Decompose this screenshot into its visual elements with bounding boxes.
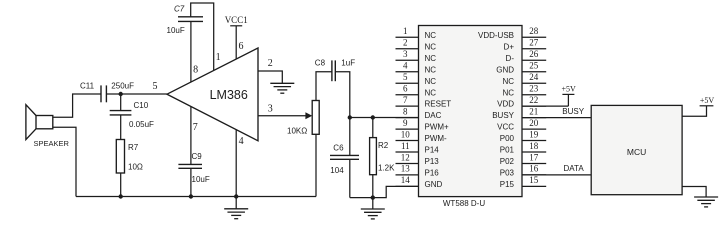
node junction C10 tap bbox=[119, 92, 123, 96]
IC U2 name label bbox=[443, 199, 485, 208]
ground main bbox=[224, 197, 248, 219]
svg-text:17: 17 bbox=[529, 152, 539, 162]
pin 20 label VCC bbox=[497, 123, 514, 132]
pin 6 label bbox=[239, 41, 244, 52]
op-amp U1 LM386 bbox=[167, 48, 258, 141]
svg-text:DAC: DAC bbox=[425, 111, 442, 120]
svg-text:NC: NC bbox=[425, 77, 437, 86]
node C6 tap bbox=[348, 115, 352, 119]
svg-text:3: 3 bbox=[403, 49, 408, 59]
arrow into potentiometer bbox=[305, 112, 312, 119]
pin 7 wire bbox=[190, 106, 192, 164]
junction pin4-rail bbox=[234, 194, 238, 198]
svg-text:18: 18 bbox=[529, 141, 539, 151]
svg-text:BUSY: BUSY bbox=[562, 107, 584, 116]
svg-text:VDD-USB: VDD-USB bbox=[478, 31, 514, 40]
pin 26 stub bbox=[522, 49, 546, 60]
power +5V at pin 22 bbox=[522, 84, 576, 106]
DATA label bbox=[564, 164, 585, 173]
ground at MCU bbox=[682, 187, 718, 207]
wire speaker bottom to ground rail bbox=[53, 127, 76, 196]
resistor R2 bbox=[370, 118, 396, 198]
svg-text:23: 23 bbox=[529, 84, 539, 94]
svg-text:10Ω: 10Ω bbox=[128, 163, 143, 172]
MCU block bbox=[591, 105, 682, 194]
node R2 tap bbox=[371, 115, 375, 119]
svg-text:C7: C7 bbox=[174, 5, 185, 14]
svg-text:2: 2 bbox=[268, 58, 273, 69]
svg-text:7: 7 bbox=[403, 95, 408, 105]
svg-text:26: 26 bbox=[529, 49, 539, 59]
svg-text:R2: R2 bbox=[378, 141, 389, 150]
svg-text:10KΩ: 10KΩ bbox=[287, 127, 307, 136]
power VCC1 bbox=[225, 15, 248, 59]
pin 16 label P03 bbox=[500, 169, 515, 178]
pin 9 label PWM+ bbox=[425, 123, 450, 132]
pin 1 stub bbox=[396, 26, 419, 37]
svg-text:RESET: RESET bbox=[425, 100, 452, 109]
wire pot top riser bbox=[316, 72, 332, 101]
svg-text:10uF: 10uF bbox=[167, 26, 185, 35]
svg-text:15: 15 bbox=[529, 175, 539, 185]
wire C7 bottom to pin 8 bbox=[190, 21, 192, 82]
pin 8 stub bbox=[396, 106, 419, 117]
pin 18 label P01 bbox=[500, 146, 515, 155]
svg-text:NC: NC bbox=[425, 31, 437, 40]
svg-text:24: 24 bbox=[529, 72, 539, 82]
pin 19 stub bbox=[522, 129, 546, 140]
svg-text:9: 9 bbox=[403, 118, 408, 128]
pin 12 stub bbox=[396, 152, 419, 163]
pin 23 stub bbox=[522, 84, 546, 95]
svg-text:1: 1 bbox=[216, 52, 221, 63]
pin 3 label bbox=[268, 104, 273, 115]
pin 7 stub bbox=[396, 95, 419, 106]
svg-text:+5V: +5V bbox=[700, 96, 715, 105]
pin 5 label NC bbox=[425, 77, 437, 86]
svg-text:250uF: 250uF bbox=[111, 82, 134, 91]
pin 4 wire bbox=[235, 130, 237, 197]
svg-text:GND: GND bbox=[496, 65, 514, 74]
pin 4 stub bbox=[396, 61, 419, 72]
pin 27 stub bbox=[522, 38, 546, 49]
pin 28 label VDD-USB bbox=[478, 31, 514, 40]
pin 28 stub bbox=[522, 26, 546, 37]
pin 2 label NC bbox=[425, 42, 437, 51]
pin 22 label VDD bbox=[497, 100, 514, 109]
svg-text:20: 20 bbox=[529, 118, 539, 128]
svg-text:2: 2 bbox=[403, 38, 408, 48]
svg-text:7: 7 bbox=[193, 122, 198, 133]
pin 3 output wire bbox=[258, 115, 306, 117]
svg-text:P02: P02 bbox=[500, 157, 515, 166]
pin 6 stub bbox=[396, 84, 419, 95]
IC U2 WT588D-U body bbox=[419, 26, 523, 197]
pin 12 label P13 bbox=[425, 157, 440, 166]
pin 23 label NC bbox=[502, 88, 514, 97]
svg-text:VCC1: VCC1 bbox=[225, 15, 248, 25]
pin 21 stub bbox=[522, 106, 546, 117]
svg-text:BUSY: BUSY bbox=[492, 111, 514, 120]
svg-text:NC: NC bbox=[425, 88, 437, 97]
svg-text:WT588 D-U: WT588 D-U bbox=[443, 199, 485, 208]
svg-text:10: 10 bbox=[401, 129, 411, 139]
svg-text:5: 5 bbox=[403, 72, 408, 82]
wire DAC to pin 8 of U2 bbox=[350, 117, 419, 119]
svg-text:PWM+: PWM+ bbox=[425, 123, 450, 132]
ground pin2 bbox=[270, 83, 294, 93]
pin 3 stub bbox=[396, 49, 419, 60]
capacitor C7 bbox=[167, 5, 204, 36]
svg-text:0.05uF: 0.05uF bbox=[129, 120, 154, 129]
pin 6 label NC bbox=[425, 88, 437, 97]
wire DATA bbox=[522, 174, 591, 176]
ground rail wire bbox=[76, 196, 316, 198]
pin 14 stub bbox=[396, 175, 419, 186]
svg-text:D+: D+ bbox=[504, 42, 515, 51]
power +5V at MCU bbox=[682, 96, 714, 116]
svg-text:NC: NC bbox=[425, 42, 437, 51]
svg-text:C9: C9 bbox=[192, 152, 203, 161]
svg-text:1uF: 1uF bbox=[341, 59, 355, 68]
capacitor C10 bbox=[110, 94, 154, 140]
svg-text:P01: P01 bbox=[500, 146, 515, 155]
capacitor C8 bbox=[315, 59, 355, 82]
pin 8 label DAC bbox=[425, 111, 442, 120]
wire C8 to DAC node bbox=[335, 72, 350, 118]
pin 18 stub bbox=[522, 141, 546, 152]
pin 19 label P00 bbox=[500, 134, 515, 143]
pin 1 label NC bbox=[425, 31, 437, 40]
pin 25 stub bbox=[522, 61, 546, 72]
svg-text:P16: P16 bbox=[425, 169, 440, 178]
resistor R7 bbox=[116, 140, 143, 197]
pin 4 label NC bbox=[425, 65, 437, 74]
pin 7 label RESET bbox=[425, 100, 452, 109]
svg-text:D-: D- bbox=[506, 54, 515, 63]
svg-text:27: 27 bbox=[529, 38, 539, 48]
wire BUSY bbox=[522, 117, 591, 119]
svg-text:16: 16 bbox=[529, 164, 539, 174]
svg-text:25: 25 bbox=[529, 61, 539, 71]
pin 25 label GND bbox=[496, 65, 514, 74]
svg-text:13: 13 bbox=[401, 164, 411, 174]
svg-text:P14: P14 bbox=[425, 146, 440, 155]
svg-text:8: 8 bbox=[193, 64, 198, 75]
svg-text:GND: GND bbox=[425, 180, 443, 189]
svg-text:4: 4 bbox=[403, 61, 408, 71]
svg-text:P00: P00 bbox=[500, 134, 515, 143]
svg-text:11: 11 bbox=[401, 141, 410, 151]
pin 26 label D- bbox=[506, 54, 515, 63]
svg-text:NC: NC bbox=[502, 88, 514, 97]
svg-text:1.2K: 1.2K bbox=[378, 164, 395, 173]
svg-text:NC: NC bbox=[425, 54, 437, 63]
svg-text:12: 12 bbox=[401, 152, 410, 162]
wire pot bottom to rail bbox=[315, 134, 317, 196]
svg-text:5: 5 bbox=[153, 81, 158, 92]
pin 15 stub bbox=[522, 175, 546, 186]
svg-text:VCC: VCC bbox=[497, 123, 514, 132]
svg-text:R7: R7 bbox=[128, 143, 139, 152]
pin 27 label D+ bbox=[504, 42, 515, 51]
svg-text:NC: NC bbox=[425, 65, 437, 74]
svg-text:VDD: VDD bbox=[497, 100, 514, 109]
capacitor C6 bbox=[330, 118, 359, 198]
pin 14 label GND bbox=[425, 180, 443, 189]
pin 21 label BUSY bbox=[492, 111, 514, 120]
pin 11 stub bbox=[396, 141, 419, 152]
svg-text:6: 6 bbox=[239, 41, 244, 52]
wire bottom to pin 14 GND bbox=[350, 186, 419, 197]
svg-text:DATA: DATA bbox=[564, 164, 585, 173]
pin 2 stub bbox=[396, 38, 419, 49]
svg-text:NC: NC bbox=[502, 77, 514, 86]
svg-text:PWM-: PWM- bbox=[425, 134, 448, 143]
wire speaker top to C11 bbox=[53, 94, 101, 117]
svg-text:C8: C8 bbox=[315, 59, 326, 68]
pin 1 label bbox=[216, 52, 221, 63]
pin 15 label P15 bbox=[500, 180, 515, 189]
wire C11 to pin 5 bbox=[106, 93, 167, 95]
capacitor C9 bbox=[178, 152, 209, 197]
speaker SPEAKER bbox=[26, 105, 70, 148]
junction R2-ground bbox=[371, 195, 375, 199]
svg-text:C11: C11 bbox=[80, 82, 95, 91]
pin 13 stub bbox=[396, 164, 419, 175]
svg-text:MCU: MCU bbox=[627, 147, 646, 157]
svg-text:LM386: LM386 bbox=[210, 88, 248, 102]
pin 7 label bbox=[193, 122, 198, 133]
pin 4 label bbox=[239, 136, 244, 147]
potentiometer 10K bbox=[287, 101, 319, 136]
pin 9 stub bbox=[396, 118, 419, 129]
junction C9-rail bbox=[189, 194, 193, 198]
svg-text:1: 1 bbox=[403, 26, 408, 36]
wire C7 top to pin 1 bbox=[191, 3, 214, 71]
svg-text:P03: P03 bbox=[500, 169, 515, 178]
svg-text:104: 104 bbox=[330, 166, 344, 175]
svg-text:14: 14 bbox=[401, 175, 411, 185]
svg-text:P13: P13 bbox=[425, 157, 440, 166]
pin 24 label NC bbox=[502, 77, 514, 86]
pin 11 label P14 bbox=[425, 146, 440, 155]
pin 16 stub bbox=[522, 164, 546, 175]
pin 10 stub bbox=[396, 129, 419, 140]
pin 2 wire bbox=[258, 71, 282, 83]
capacitor C11 bbox=[80, 82, 134, 103]
pin 5 label bbox=[153, 81, 158, 92]
pin 24 stub bbox=[522, 72, 546, 83]
BUSY label bbox=[562, 107, 584, 116]
pin 5 stub bbox=[396, 72, 419, 83]
svg-text:SPEAKER: SPEAKER bbox=[34, 139, 70, 148]
svg-text:21: 21 bbox=[529, 106, 538, 116]
svg-text:+5V: +5V bbox=[561, 84, 576, 93]
svg-text:10uF: 10uF bbox=[192, 175, 210, 184]
svg-text:P15: P15 bbox=[500, 180, 515, 189]
svg-text:19: 19 bbox=[529, 129, 539, 139]
pin 17 label P02 bbox=[500, 157, 515, 166]
svg-text:6: 6 bbox=[403, 84, 408, 94]
junction R7-rail bbox=[119, 194, 123, 198]
svg-text:C10: C10 bbox=[134, 101, 149, 110]
svg-text:C6: C6 bbox=[333, 144, 344, 153]
pin 13 label P16 bbox=[425, 169, 440, 178]
pin 22 stub bbox=[522, 95, 546, 106]
svg-text:28: 28 bbox=[529, 26, 539, 36]
svg-text:8: 8 bbox=[403, 106, 408, 116]
pin 3 label NC bbox=[425, 54, 437, 63]
svg-text:22: 22 bbox=[529, 95, 538, 105]
pin 20 stub bbox=[522, 118, 546, 129]
pin 2 label bbox=[268, 58, 273, 69]
svg-text:4: 4 bbox=[239, 136, 244, 147]
svg-text:3: 3 bbox=[268, 104, 273, 115]
pin 17 stub bbox=[522, 152, 546, 163]
pin 10 label PWM- bbox=[425, 134, 448, 143]
ground C6-R2 bbox=[361, 198, 385, 219]
pin 8 label bbox=[193, 64, 198, 75]
